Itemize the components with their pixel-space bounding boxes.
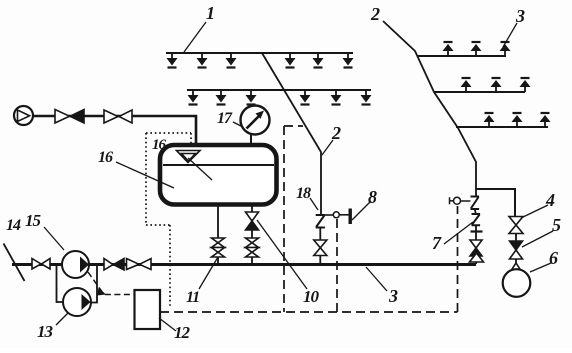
pressure tank 16 xyxy=(160,145,277,205)
drain valves below check xyxy=(246,238,259,243)
leader 5 xyxy=(522,231,553,247)
drencher head D2-2 xyxy=(491,78,502,92)
pump bypass piping xyxy=(57,264,98,303)
svg-text:18: 18 xyxy=(296,185,311,202)
right riser pipe 2 xyxy=(383,21,476,197)
arrow on control wiring xyxy=(97,288,106,296)
feed pipe to tank xyxy=(33,116,196,146)
sprinkler branch row 2 xyxy=(187,89,371,91)
svg-text:12: 12 xyxy=(174,323,191,342)
spray cone 6 xyxy=(509,263,524,275)
drencher branch row C xyxy=(456,126,548,128)
leader 8 xyxy=(352,201,371,220)
svg-text:17: 17 xyxy=(217,110,233,127)
svg-text:15: 15 xyxy=(25,211,42,230)
svg-text:2: 2 xyxy=(370,4,380,24)
foam chamber 6 xyxy=(503,269,531,297)
svg-text:11: 11 xyxy=(186,289,199,306)
svg-text:4: 4 xyxy=(545,190,555,210)
sprinkler branch row 1 xyxy=(166,52,353,54)
sprinkler head S2-3 xyxy=(246,90,257,105)
sprinkler head S1-1 xyxy=(167,53,178,68)
svg-text:13: 13 xyxy=(37,322,54,341)
pressure switch circle xyxy=(333,212,339,218)
pump 13 xyxy=(63,288,91,316)
leader 1 xyxy=(184,22,206,52)
svg-text:5: 5 xyxy=(552,215,561,235)
leader 11 xyxy=(199,257,218,289)
pipe break mark xyxy=(4,244,25,282)
svg-text:16: 16 xyxy=(152,137,167,153)
drencher head D1-2 xyxy=(471,42,482,56)
leader 2 mid xyxy=(322,140,333,155)
alarm branch 18 xyxy=(325,214,334,216)
drencher head D3-2 xyxy=(512,113,523,127)
drencher head D2-1 xyxy=(461,78,472,92)
sprinkler head S1-5 xyxy=(313,53,324,68)
sprinkler head S1-2 xyxy=(197,53,208,68)
svg-text:1: 1 xyxy=(206,3,214,23)
pump 15 xyxy=(62,251,89,278)
sprinkler head S2-4 xyxy=(300,90,311,105)
pipe between valves 4 5 xyxy=(515,234,517,242)
tank drain pipe left xyxy=(217,203,219,264)
svg-text:3: 3 xyxy=(515,6,525,26)
dashed zone boundary xyxy=(160,126,458,312)
leader 18 xyxy=(310,198,318,210)
level mark symbol xyxy=(177,151,201,163)
tank drain pipe right xyxy=(251,203,253,264)
check valve 5 xyxy=(510,241,523,259)
drencher head D3-3 xyxy=(540,113,551,127)
svg-text:10: 10 xyxy=(303,287,320,306)
blind flange 8 xyxy=(349,209,352,225)
drencher branch row A xyxy=(418,55,506,57)
leader inside tank xyxy=(188,158,212,180)
pressure switch stub 7 xyxy=(460,200,470,202)
gate valve on feed pipe xyxy=(104,110,132,123)
gate valve after pump xyxy=(127,259,152,270)
check valve after pump xyxy=(104,259,124,271)
svg-text:8: 8 xyxy=(368,187,377,207)
sprinkler head S1-3 xyxy=(226,53,237,68)
water source symbol xyxy=(14,106,33,125)
sprinkler head S1-6 xyxy=(343,53,354,68)
leader 4 xyxy=(521,205,548,218)
svg-text:6: 6 xyxy=(549,248,558,268)
drencher branch row B xyxy=(434,91,525,93)
leader 10 xyxy=(257,220,307,289)
valve before pumps xyxy=(32,259,50,270)
left riser pipe 2 xyxy=(262,53,321,215)
main supply pipe xyxy=(12,263,476,266)
leader 13 xyxy=(56,313,68,325)
deluge valve 7 upper xyxy=(471,197,480,210)
liquid level line xyxy=(163,164,274,166)
leader 15 xyxy=(44,227,64,250)
check valve 10 xyxy=(246,212,259,230)
deluge valve 18 xyxy=(316,215,325,228)
valve under 18 xyxy=(314,240,327,248)
pipe below valve 5 xyxy=(515,259,517,264)
leader 17 xyxy=(233,122,241,126)
leader 12 xyxy=(159,318,176,331)
level sensor dotted line xyxy=(146,133,191,307)
leader 7 xyxy=(444,222,473,244)
branch to plug 8 xyxy=(339,214,349,216)
leader 6 xyxy=(530,263,551,272)
cone under valve 7 xyxy=(470,253,484,262)
svg-text:14: 14 xyxy=(6,217,21,234)
control wiring pumps to cabinet xyxy=(88,272,134,295)
dashed line from switch 18 xyxy=(336,219,338,312)
gauge stem xyxy=(250,134,252,146)
svg-text:2: 2 xyxy=(331,123,341,143)
sprinkler head S2-6 xyxy=(361,90,372,105)
check valve on feed pipe xyxy=(55,110,84,124)
svg-text:7: 7 xyxy=(432,233,442,253)
sprinkler head S1-4 xyxy=(285,53,296,68)
valve 4 xyxy=(509,217,523,226)
riser below valve 18 xyxy=(319,228,321,265)
pipe below valve 7 xyxy=(475,225,477,264)
leader 3 bottom xyxy=(366,267,387,291)
drencher head D3-1 xyxy=(484,113,495,127)
leader 3 top xyxy=(503,23,517,47)
control cabinet 12 xyxy=(135,290,161,329)
vent tee on valve 7 pipe xyxy=(471,230,483,232)
pressure gauge 17 xyxy=(241,106,270,135)
leader 16 xyxy=(116,162,174,188)
sprinkler head S2-2 xyxy=(216,90,227,105)
drencher head D1-1 xyxy=(443,42,454,56)
deluge valve 7 lower xyxy=(472,214,481,225)
sprinkler head S2-1 xyxy=(188,90,199,105)
drencher head D2-3 xyxy=(520,78,531,92)
svg-text:16: 16 xyxy=(98,149,113,166)
valve under 7 xyxy=(470,240,482,248)
sprinkler head S2-5 xyxy=(331,90,342,105)
drencher head D1-3 xyxy=(500,42,511,56)
svg-text:3: 3 xyxy=(388,286,398,306)
pipe between valve 7 sections xyxy=(475,209,476,214)
pipe to drain column xyxy=(476,189,515,217)
drain valves 11 xyxy=(212,238,225,243)
